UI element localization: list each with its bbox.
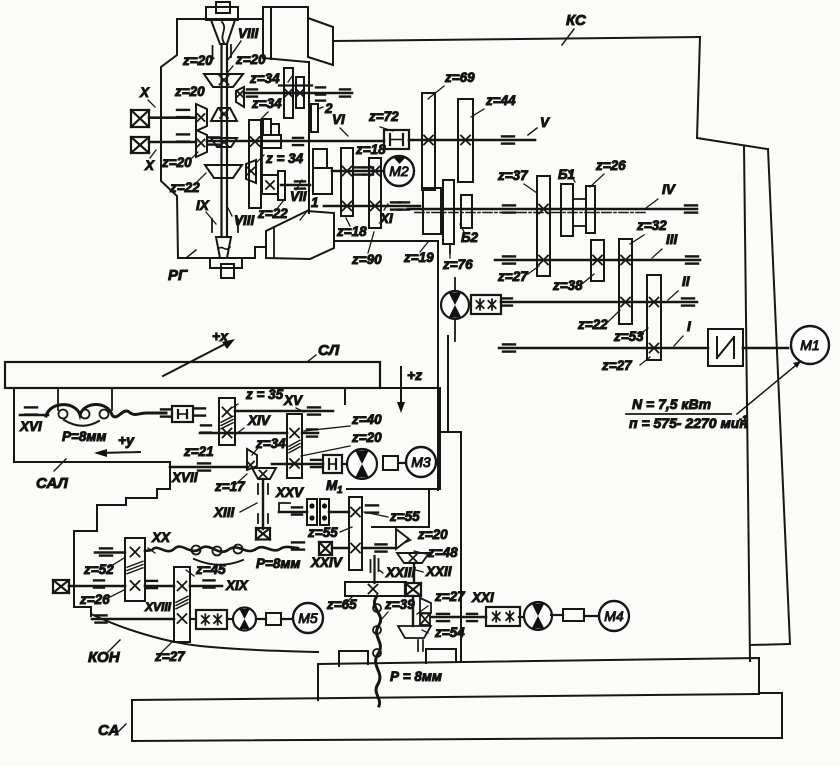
table SL rect bbox=[5, 362, 380, 388]
svg-text:М1: М1 bbox=[800, 337, 819, 353]
svg-text:z=22: z=22 bbox=[169, 180, 200, 195]
block Б1 right gear z=26 bbox=[586, 186, 595, 233]
lower block trapezoid bbox=[266, 211, 334, 259]
shaft z55 upper bbox=[279, 511, 307, 514]
headstock bottom flange bbox=[210, 258, 242, 268]
clutch M1 on XXV bbox=[323, 455, 342, 473]
svg-text:Р=8мм: Р=8мм bbox=[256, 556, 300, 571]
svg-text:II: II bbox=[682, 274, 690, 289]
gear z=76 block bbox=[443, 180, 454, 244]
svg-text:z=34: z=34 bbox=[255, 436, 286, 451]
svg-text:СЛ: СЛ bbox=[318, 342, 340, 359]
spindle head top cap bbox=[216, 2, 230, 13]
svg-text:z=37: z=37 bbox=[497, 168, 529, 183]
shaft XXIV bbox=[332, 547, 349, 550]
svg-text:z=55: z=55 bbox=[389, 509, 420, 524]
clutch coupling z=72 bbox=[384, 130, 409, 149]
svg-text:z=45: z=45 bbox=[195, 562, 226, 577]
bearing VI right bbox=[293, 137, 303, 139]
motor M2 bbox=[384, 156, 414, 186]
svg-text:z=44: z=44 bbox=[485, 93, 516, 108]
svg-text:Б1: Б1 bbox=[558, 167, 575, 182]
svg-text:VIII: VIII bbox=[234, 213, 255, 228]
svg-text:XXI: XXI bbox=[471, 590, 494, 605]
shaft II bbox=[501, 301, 697, 304]
svg-text:СА: СА bbox=[98, 722, 119, 739]
svg-text:X: X bbox=[139, 85, 150, 100]
svg-text:z=55: z=55 bbox=[307, 525, 338, 540]
svg-text:z=39: z=39 bbox=[384, 597, 415, 612]
bearing III right bbox=[686, 255, 698, 257]
gearbox z45 block bbox=[174, 567, 190, 642]
pump stub bbox=[454, 319, 456, 341]
bevel gear z=22 on IX bbox=[205, 165, 242, 178]
bearing XIX c bbox=[147, 580, 157, 582]
bearing shaft VI left bbox=[209, 136, 219, 138]
shaft XIV bbox=[200, 432, 287, 435]
chain screw vertical bbox=[374, 596, 380, 706]
gear z=19 block bbox=[423, 188, 441, 234]
bevel gear on VIII third bbox=[211, 138, 237, 147]
svg-text:XVI: XVI bbox=[19, 419, 42, 434]
svg-text:z=20: z=20 bbox=[174, 84, 205, 99]
axis IV dash bbox=[415, 212, 645, 214]
svg-text:X: X bbox=[144, 158, 155, 173]
shifter block on VI bbox=[263, 119, 271, 135]
bearing II left bbox=[502, 297, 512, 299]
bevel z17 lower bbox=[252, 468, 276, 479]
arrow +x bbox=[163, 342, 229, 376]
svg-text:z=20: z=20 bbox=[161, 155, 192, 170]
headstock bottom boss bbox=[221, 264, 234, 278]
shaft 2 horizontal bbox=[244, 92, 352, 95]
screw XX rollers bbox=[192, 546, 201, 555]
svg-text:Р=8мм: Р=8мм bbox=[62, 429, 106, 444]
pointer M1 bbox=[737, 361, 801, 414]
svg-text:z=26: z=26 bbox=[79, 592, 110, 607]
bearing box shaft X lower bbox=[131, 137, 149, 153]
svg-text:КС: КС bbox=[566, 12, 587, 29]
bearing XIV left bbox=[201, 424, 211, 426]
svg-text:z=27: z=27 bbox=[601, 358, 633, 373]
table nut bracket bbox=[57, 388, 59, 410]
svg-text:XI: XI bbox=[379, 211, 393, 226]
bearing pair right of z18 bbox=[355, 166, 365, 168]
svg-text:VI: VI bbox=[332, 112, 345, 127]
svg-text:z=65: z=65 bbox=[326, 597, 357, 612]
tick XXV left bbox=[279, 503, 290, 512]
svg-text:z=17: z=17 bbox=[214, 479, 246, 494]
shaft XI bbox=[324, 205, 420, 208]
bevel gear on VII left bbox=[246, 160, 256, 183]
svg-text:z=22: z=22 bbox=[257, 206, 288, 221]
bearing XX right bbox=[292, 541, 304, 543]
bearing on shaft 2 bbox=[247, 88, 257, 90]
gear z=18 block bbox=[341, 148, 353, 216]
bed upper band bbox=[318, 658, 759, 700]
bearing XV right bbox=[308, 406, 320, 408]
shaft XXI bbox=[431, 616, 486, 619]
svg-text:XVII: XVII bbox=[171, 470, 198, 485]
svg-text:z=27: z=27 bbox=[434, 589, 466, 604]
countershaft line bbox=[279, 84, 312, 86]
svg-text:XXII: XXII bbox=[425, 564, 452, 579]
arrow +y bbox=[100, 452, 140, 453]
shaft XV bbox=[235, 410, 333, 413]
svg-text:1: 1 bbox=[311, 195, 319, 210]
knee bottom curve bbox=[91, 614, 318, 652]
svg-text:z=40: z=40 bbox=[351, 412, 382, 427]
gear z=53 block bbox=[647, 275, 661, 360]
svg-text:z=20: z=20 bbox=[182, 53, 213, 68]
column right edge inner bbox=[744, 146, 750, 661]
svg-text:-1: -1 bbox=[739, 414, 747, 424]
spline ticks XXII lower bbox=[417, 640, 419, 651]
bearing box shaft X upper bbox=[131, 110, 149, 127]
svg-text:КОН: КОН bbox=[88, 649, 121, 666]
svg-text:САЛ: САЛ bbox=[36, 475, 68, 492]
shaft XXV bbox=[272, 463, 323, 466]
block Б1 links bbox=[573, 198, 586, 200]
screw nut rollers bbox=[59, 410, 68, 419]
spindle nose cone bbox=[216, 237, 231, 258]
bearing XVII bbox=[198, 462, 210, 464]
screw XVI lower arc bbox=[64, 420, 99, 426]
overload clutch on I bbox=[708, 329, 743, 366]
svg-text:z=54: z=54 bbox=[434, 625, 465, 640]
svg-text:z=27: z=27 bbox=[497, 269, 529, 284]
motor M2 arrow bbox=[393, 157, 406, 164]
svg-text:z=76: z=76 bbox=[442, 257, 473, 272]
svg-text:z=18: z=18 bbox=[355, 142, 386, 157]
bevel z54 bbox=[398, 626, 431, 638]
motor M4 bbox=[584, 615, 599, 617]
svg-text:XXIV: XXIV bbox=[310, 555, 343, 570]
svg-text:XIV: XIV bbox=[247, 413, 271, 428]
svg-text:VII: VII bbox=[290, 189, 307, 204]
gear z=55 block bbox=[349, 497, 362, 570]
gearbox z35 block bbox=[219, 398, 235, 445]
shaft to M2 bbox=[332, 170, 385, 173]
headstock bottom edge bbox=[178, 257, 210, 259]
bearing end shaft 2 bbox=[340, 88, 350, 90]
shaft XIX bbox=[69, 585, 125, 588]
svg-text:z=52: z=52 bbox=[83, 562, 114, 577]
bed main slab right bbox=[132, 693, 782, 741]
bearing XIX a bbox=[94, 579, 104, 581]
shaft III bbox=[495, 259, 700, 262]
screw XVI wave bbox=[46, 405, 166, 417]
svg-text:XXIII: XXIII bbox=[385, 565, 416, 580]
bevel gear z=20 on X upper bbox=[196, 104, 207, 131]
shaft VI bbox=[207, 140, 384, 143]
bearing XX bbox=[100, 547, 112, 549]
lower block inner line bbox=[273, 227, 275, 258]
svg-text:z=53: z=53 bbox=[613, 329, 644, 344]
svg-text:XIII: XIII bbox=[213, 505, 235, 520]
bearing box XIX left bbox=[53, 580, 69, 593]
bearing XIX b bbox=[204, 579, 215, 581]
motor M1 bbox=[791, 326, 829, 364]
shaft to z55 bbox=[329, 511, 349, 514]
gear z=90 block bbox=[369, 158, 381, 228]
spindle spline ticks bottom bbox=[211, 219, 213, 232]
bed step small bbox=[339, 651, 368, 666]
bearing IV right bbox=[685, 204, 697, 206]
svg-text:VIII: VIII bbox=[238, 26, 259, 41]
gear upper second bbox=[296, 77, 304, 108]
svg-text:IV: IV bbox=[662, 182, 676, 197]
svg-text:РГ: РГ bbox=[168, 267, 188, 284]
bearing shaft X lower bbox=[177, 133, 189, 135]
svg-text:z=34: z=34 bbox=[249, 71, 280, 86]
shaft IV bbox=[408, 208, 697, 211]
coupling square feed bbox=[383, 456, 398, 470]
shaft VIII vertical bbox=[220, 44, 222, 237]
svg-text:z=72: z=72 bbox=[368, 109, 399, 124]
bearing dog left bbox=[292, 506, 302, 508]
svg-text:z=90: z=90 bbox=[351, 252, 382, 267]
clutch on XVI-XV bbox=[161, 408, 171, 410]
bevel gear right of spindle top bbox=[236, 87, 244, 107]
bearing XVI bbox=[25, 406, 37, 408]
svg-text:z=48: z=48 bbox=[427, 545, 458, 560]
bearing III left bbox=[503, 255, 515, 257]
svg-text:+у: +у bbox=[118, 432, 135, 448]
motor M3 bbox=[398, 462, 407, 464]
svg-text:I: I bbox=[687, 319, 691, 334]
motor M5 bbox=[281, 618, 293, 620]
console SAL outline bbox=[14, 388, 170, 531]
feed housing step bbox=[372, 489, 429, 527]
hydraulic motor XVIII bbox=[227, 618, 233, 620]
bearing z55 right bbox=[366, 504, 378, 506]
svg-text:III: III bbox=[666, 232, 678, 247]
shaft XIII vertical bbox=[262, 479, 264, 529]
bevel gear z=20 top on VIII bbox=[204, 74, 243, 87]
headstock top edge bbox=[177, 18, 263, 20]
bevel z=20 pair bbox=[396, 529, 409, 549]
column front edge bbox=[437, 242, 439, 490]
hydraulic motor XXI bbox=[519, 616, 524, 618]
bearing IV left bbox=[503, 204, 515, 206]
chain rollers bbox=[373, 604, 381, 612]
bearing box XXIII right bbox=[405, 583, 421, 596]
gear z=69 bbox=[422, 93, 435, 190]
svg-text:z=20: z=20 bbox=[235, 52, 266, 67]
bearing XXI a bbox=[437, 613, 449, 615]
bearing XVIII bbox=[96, 614, 107, 616]
svg-text:z = 34: z = 34 bbox=[265, 151, 304, 166]
svg-text:1: 1 bbox=[337, 485, 343, 496]
dog clutch right bbox=[320, 499, 329, 525]
column KC right top bbox=[697, 37, 767, 149]
svg-text:z=38: z=38 bbox=[552, 278, 583, 293]
svg-text:Р = 8мм: Р = 8мм bbox=[390, 669, 442, 684]
gear z=22 on VII bbox=[278, 171, 285, 200]
svg-text:z=21: z=21 bbox=[183, 444, 214, 459]
arrow +z bbox=[400, 367, 402, 407]
bearing XXV bbox=[311, 459, 321, 461]
bearing shaft X upper bbox=[177, 109, 189, 111]
svg-text:z=34: z=34 bbox=[251, 96, 282, 111]
shaft XVIII bbox=[92, 618, 174, 621]
svg-text:V: V bbox=[540, 115, 550, 130]
bevel z17 upper bbox=[247, 449, 257, 470]
fraction bar bbox=[626, 413, 731, 415]
shaft XXII vertical bbox=[413, 563, 415, 582]
svg-text:z = 35: z = 35 bbox=[245, 387, 284, 402]
block Б1 left gear bbox=[561, 184, 573, 236]
gear z=34 tall block bbox=[249, 120, 261, 208]
gearbox z40 block bbox=[287, 414, 302, 478]
shaft XXII lower bbox=[412, 596, 414, 626]
svg-text:z=19: z=19 bbox=[403, 250, 434, 265]
bearing XXIV right bbox=[376, 543, 387, 545]
safety coupling on II bbox=[471, 295, 501, 314]
column upper block bbox=[263, 7, 308, 58]
gear stub right of wall bbox=[311, 104, 318, 132]
spline ticks XIII a bbox=[257, 484, 259, 494]
coupling square XVIII bbox=[256, 618, 266, 620]
column front step bbox=[447, 336, 449, 432]
shaft XVII bbox=[170, 466, 247, 469]
hydraulic pump B2 bbox=[441, 291, 469, 319]
column ledge line bbox=[334, 240, 438, 242]
bearing box XXIV bbox=[319, 542, 332, 555]
svg-text:М5: М5 bbox=[298, 610, 318, 626]
safety coupling XVIII bbox=[190, 618, 196, 620]
svg-text:z=18: z=18 bbox=[336, 224, 367, 239]
feed housing bbox=[345, 388, 440, 489]
gear z=34 upper bbox=[284, 68, 293, 118]
gear z=65 long box bbox=[345, 582, 406, 596]
shaft X lower bbox=[149, 141, 196, 144]
link to pump bbox=[449, 244, 451, 253]
column right edge outer bbox=[768, 149, 790, 644]
spindle top funnel bbox=[211, 20, 235, 44]
bearing XXI b bbox=[467, 613, 477, 615]
bevel gear z=20 on X lower bbox=[196, 130, 207, 157]
svg-text:IX: IX bbox=[196, 198, 210, 213]
svg-text:z=20: z=20 bbox=[417, 527, 448, 542]
bearing box XIII bbox=[256, 528, 270, 540]
bevel z27 XXI bbox=[420, 598, 431, 613]
bearing II right bbox=[682, 297, 694, 299]
shaft I bbox=[499, 347, 708, 350]
gear z=37 block bbox=[537, 176, 550, 276]
svg-text:z=22: z=22 bbox=[577, 317, 608, 332]
hydraulic motor feed bbox=[342, 463, 348, 465]
svg-text:z=32: z=32 bbox=[636, 218, 667, 233]
dog clutch left bbox=[307, 499, 317, 525]
coupling square XXI bbox=[551, 614, 563, 616]
headstock left outline bbox=[161, 19, 178, 258]
safety coupling XXI bbox=[486, 607, 520, 626]
screw XX lower arc bbox=[194, 559, 243, 565]
bevel gear z=20 mid on VIII bbox=[211, 108, 237, 121]
svg-text:+x: +x bbox=[212, 328, 229, 344]
bearing XIV right bbox=[307, 428, 317, 430]
svg-text:М4: М4 bbox=[604, 608, 624, 624]
spline ticks XXIII bbox=[373, 556, 375, 583]
svg-text:N = 7,5 кВт: N = 7,5 кВт bbox=[632, 396, 711, 412]
gear Б2 small bbox=[461, 195, 472, 228]
shaft XX stub bbox=[95, 551, 125, 554]
svg-text:z=69: z=69 bbox=[444, 70, 475, 85]
spline ticks XIII b bbox=[257, 514, 259, 523]
svg-text:z=27: z=27 bbox=[154, 649, 186, 664]
svg-text:М3: М3 bbox=[411, 454, 431, 470]
shaft X upper bbox=[149, 116, 196, 119]
shaft I to M1 bbox=[743, 347, 788, 350]
screw XX wave bbox=[145, 547, 298, 552]
gear z=38 bbox=[591, 240, 604, 281]
svg-text:z=20: z=20 bbox=[351, 430, 382, 445]
gear on VII bbox=[262, 175, 278, 194]
headstock bottom step bbox=[242, 247, 266, 258]
headstock inner wall bbox=[308, 62, 310, 213]
column strip bottom bbox=[751, 644, 789, 645]
svg-text:М2: М2 bbox=[389, 163, 409, 179]
bearing shaft V bbox=[502, 135, 514, 137]
column upper slanted block bbox=[308, 18, 333, 65]
svg-text:п = 575- 2270 мин: п = 575- 2270 мин bbox=[629, 415, 748, 431]
bed step small b bbox=[426, 649, 456, 663]
bearing pair shaft 2 bbox=[316, 86, 325, 88]
gear z=32 z=22 block bbox=[619, 239, 632, 324]
svg-text:z=26: z=26 bbox=[595, 158, 626, 173]
svg-text:XVIII: XVIII bbox=[144, 600, 172, 614]
svg-text:+z: +z bbox=[407, 367, 422, 383]
svg-text:XX: XX bbox=[151, 530, 171, 545]
gear z=44 bbox=[458, 99, 473, 182]
gear block 1 lower bbox=[313, 168, 332, 194]
gearbox z52 block bbox=[125, 538, 145, 601]
bearing shaft VII bbox=[295, 180, 305, 182]
bed main slab bbox=[132, 694, 759, 700]
svg-text:XV: XV bbox=[283, 393, 303, 408]
knee outline bbox=[74, 531, 91, 616]
spindle spline ticks top bbox=[212, 46, 214, 58]
bearing I left bbox=[503, 343, 515, 345]
svg-text:XXV: XXV bbox=[275, 485, 304, 500]
shaft VII bbox=[281, 184, 310, 187]
bearing shaft XI bbox=[391, 201, 401, 203]
shaft V bbox=[409, 139, 535, 142]
column KC top bbox=[333, 37, 700, 41]
gear block 2 upper bbox=[313, 149, 327, 168]
screw XVI start bbox=[20, 414, 48, 417]
svg-text:XIX: XIX bbox=[225, 578, 249, 593]
